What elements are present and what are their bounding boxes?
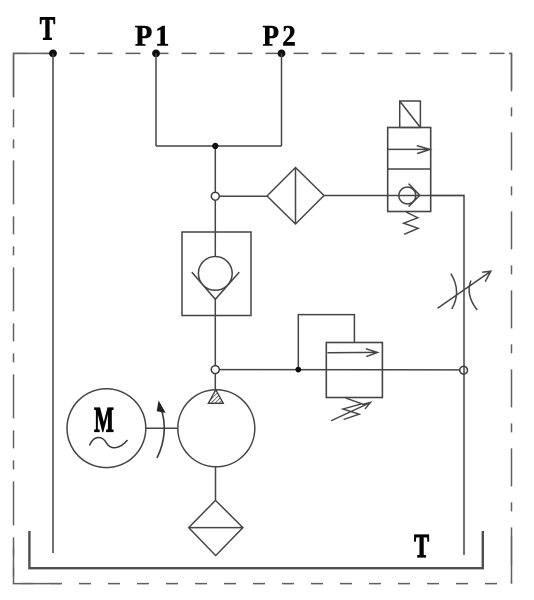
wire gauge node to check valve (214, 200, 216, 257)
wire P1 down (155, 53, 157, 146)
svg-text:P1: P1 (135, 20, 172, 53)
node pump outlet circle (211, 366, 219, 374)
wire check valve to pump node (214, 299, 216, 365)
flow arrow in U1 top position (389, 146, 431, 154)
wire P1-P2 header (156, 145, 282, 147)
flow arrow in RV1 (328, 349, 378, 357)
wire P2 down (281, 53, 283, 146)
motor M1 circle (67, 389, 146, 468)
check valve in U1 bottom position (399, 184, 420, 207)
wire gauge node to filter (219, 195, 267, 197)
node T (port dot) (49, 50, 57, 58)
adjustable spring of RV1 (331, 398, 370, 421)
tank (reservoir) (29, 531, 482, 568)
node junction P header (212, 143, 218, 149)
filter F1 (pressure filter diamond) (267, 168, 324, 225)
wire T port down to tank (52, 53, 54, 553)
suction strainer diamond (189, 500, 243, 555)
relief valve RV1 body (326, 343, 382, 398)
wire pump suction (215, 467, 217, 501)
rotation arrow (157, 400, 166, 458)
wire valve outlet to throttle branch (431, 196, 464, 556)
svg-text:M: M (94, 401, 114, 440)
wire pump node to pump inlet (214, 374, 216, 390)
svg-text:T: T (40, 10, 55, 47)
wire header down to gauge node (214, 146, 216, 192)
spring of U1 (404, 212, 419, 234)
node gauge point circle (211, 192, 219, 200)
svg-text:P2: P2 (263, 20, 299, 53)
node P2 (port dot) (278, 50, 286, 58)
solenoid coil of U1 (400, 101, 421, 128)
throttle valve (adjustable restrictor) (438, 271, 491, 310)
solenoid valve U1 body (388, 128, 431, 212)
pump P (circle) (178, 390, 255, 467)
node P1 (port dot) (152, 50, 160, 58)
node junction relief pilot (295, 367, 301, 373)
wire relief pilot line (298, 315, 354, 370)
check valve CV1 enclosure (182, 232, 251, 316)
node throttle branch circle (460, 366, 468, 374)
wire relief main line (219, 369, 459, 371)
svg-text:T: T (414, 527, 429, 565)
check valve CV1 seat (192, 272, 240, 299)
wire filter to valve (324, 195, 464, 197)
pump outlet triangle (hatched) (208, 390, 223, 404)
wire motor shaft (146, 427, 178, 429)
check valve CV1 ball (198, 257, 232, 291)
motor M1 AC wave (90, 437, 128, 447)
